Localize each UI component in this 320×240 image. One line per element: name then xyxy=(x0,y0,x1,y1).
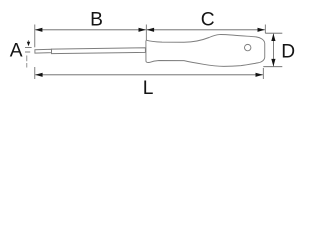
D vertical line xyxy=(272,34,274,66)
svg-text:B: B xyxy=(90,9,103,30)
blade tip xyxy=(35,49,52,53)
D top arrow xyxy=(271,34,275,42)
dim lines xyxy=(25,25,282,80)
B right arrow xyxy=(139,28,147,32)
D bottom arrow xyxy=(271,59,275,67)
svg-text:A: A xyxy=(10,41,23,62)
mid ext line xyxy=(145,25,147,41)
A leader above xyxy=(28,40,30,42)
svg-text:L: L xyxy=(143,78,154,99)
hang hole xyxy=(245,44,251,50)
right bottom ext (L) xyxy=(262,68,264,79)
left ext line xyxy=(34,25,36,48)
handle xyxy=(146,35,265,67)
C line xyxy=(147,29,265,31)
L left arrow xyxy=(35,73,43,77)
svg-text:D: D xyxy=(281,42,295,63)
L line xyxy=(35,74,262,76)
arrowheads xyxy=(27,28,276,77)
B line xyxy=(35,29,146,31)
C left arrow xyxy=(147,28,155,32)
svg-text:C: C xyxy=(201,9,215,30)
A down arrow xyxy=(27,42,30,47)
A ext dash bottom xyxy=(25,51,30,53)
D bottom ext xyxy=(263,66,282,68)
right top ext (C) xyxy=(264,25,266,34)
A dashes below xyxy=(26,56,28,62)
D top ext xyxy=(265,32,282,34)
A ext dash top xyxy=(25,47,32,49)
C right arrow xyxy=(258,28,266,32)
L right arrow xyxy=(256,73,264,77)
shaft xyxy=(52,48,146,54)
B left arrow xyxy=(35,28,43,32)
